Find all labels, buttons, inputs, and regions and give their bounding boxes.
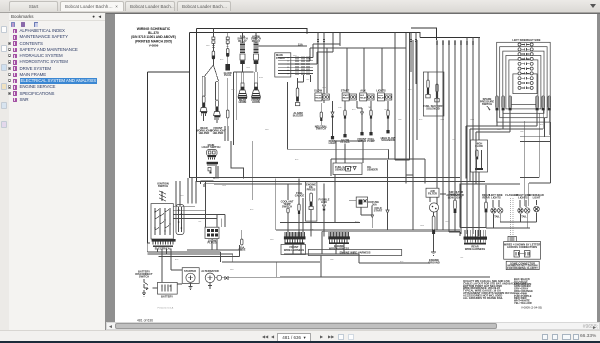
wire right routing to left	[466, 126, 476, 184]
rear horn H1	[238, 72, 247, 104]
wire right feeder bus	[420, 33, 479, 236]
svg-text:BLK: BLK	[220, 59, 224, 61]
svg-text:SOLENOID: SOLENOID	[426, 106, 440, 110]
engine harness label box	[308, 250, 401, 278]
svg-text:RED: RED	[206, 45, 210, 47]
horizontal scrollbar	[106, 322, 600, 330]
svg-text:15A: 15A	[298, 43, 303, 47]
fuse string F5	[367, 101, 375, 143]
svg-text:TAN: TAN	[368, 106, 372, 109]
horn relay K6	[251, 35, 307, 73]
page fine print	[137, 307, 174, 323]
ignition switch S2	[151, 182, 173, 240]
oil pressure switch assembly	[349, 197, 379, 228]
battery disconnect switch S3	[135, 270, 153, 289]
wire feeds above ignition	[147, 178, 205, 243]
svg-text:PRESS: PRESS	[307, 187, 316, 191]
svg-text:HORN: HORN	[239, 100, 247, 104]
svg-text:PNK: PNK	[338, 107, 342, 109]
spark arrestor muffler	[429, 190, 463, 212]
tab bar	[0, 0, 600, 13]
svg-text:YEL: YEL	[460, 257, 463, 259]
rear worklight lamp L1	[196, 76, 212, 135]
svg-text:BLK: BLK	[250, 209, 254, 211]
main light switch S1	[202, 143, 221, 178]
wire coil drains	[466, 110, 551, 206]
notes text block	[463, 279, 527, 300]
svg-text:WIRE HARNESS: WIRE HARNESS	[465, 247, 485, 251]
svg-text:SWITCH: SWITCH	[482, 102, 492, 106]
svg-text:RELAY: RELAY	[360, 96, 367, 99]
svg-text:GRN: GRN	[222, 185, 227, 187]
engine oil pressure sender box	[306, 182, 317, 237]
connector pin rows	[518, 43, 533, 89]
svg-text:V-0809: V-0809	[149, 44, 159, 48]
page	[115, 14, 597, 322]
svg-text:RED: RED	[180, 195, 184, 197]
wire light switch drop links	[201, 141, 253, 200]
svg-text:GRN: GRN	[470, 119, 475, 121]
wire V split to worklights	[205, 59, 219, 81]
engine harness connector comb CN3	[328, 232, 350, 250]
svg-text:WHT: WHT	[330, 259, 335, 261]
svg-text:TAIL: TAIL	[521, 215, 527, 219]
wire fuse block outputs	[291, 44, 340, 88]
fuse 15A label	[298, 43, 303, 47]
svg-text:WHT: WHT	[520, 131, 525, 133]
svg-text:GAUGE: GAUGE	[295, 193, 305, 197]
diode string D1	[329, 101, 337, 145]
svg-text:LIGHT: LIGHT	[329, 141, 337, 145]
converter lamp	[529, 193, 544, 218]
fuse string F6	[381, 101, 396, 142]
svg-text:TAIL: TAIL	[494, 215, 500, 219]
svg-text:SWITCH: SWITCH	[158, 184, 168, 188]
wire relay feeds from bus	[317, 33, 417, 160]
node junction dots	[213, 32, 307, 178]
svg-text:WHT: WHT	[398, 119, 403, 121]
svg-text:SENDER: SENDER	[335, 167, 346, 171]
svg-text:RED: RED	[293, 55, 297, 57]
coil right group	[536, 96, 551, 110]
air filter switch	[426, 188, 439, 202]
svg-text:LIGHTS: LIGHTS	[376, 89, 386, 93]
bookmarks panel	[9, 13, 106, 330]
wire harness links center	[333, 33, 363, 163]
svg-text:YEL: YEL	[198, 221, 201, 223]
svg-text:WIRE HARNESS: WIRE HARNESS	[329, 246, 349, 250]
svg-text:RELAY: RELAY	[316, 96, 323, 99]
front worklight lamp L2	[210, 81, 226, 135]
svg-text:ORG: ORG	[440, 119, 445, 121]
wire color code list	[514, 277, 533, 305]
svg-text:HELPER: HELPER	[213, 131, 224, 135]
svg-text:RED: RED	[230, 269, 234, 271]
lights relay K4	[376, 89, 392, 101]
svg-text:SOLENOID: SOLENOID	[381, 138, 395, 142]
svg-text:RED: RED	[265, 129, 269, 131]
right tail light assembly	[516, 193, 531, 219]
alternator low indicator	[446, 185, 464, 225]
wire id labels	[175, 45, 544, 271]
svg-text:Printed in U.S.A.: Printed in U.S.A.	[158, 307, 175, 310]
svg-text:BLK: BLK	[419, 119, 423, 121]
svg-text:ALL GROUNDS TO FRAME RAIL: ALL GROUNDS TO FRAME RAIL	[463, 296, 503, 300]
aux relay K3	[360, 89, 374, 101]
wire lamps bus	[449, 184, 537, 237]
fusible link	[318, 184, 329, 237]
svg-text:LIGHTS: LIGHTS	[518, 195, 528, 199]
front harness connector comb CN2	[281, 232, 306, 255]
instrument enclosure top	[331, 159, 425, 184]
wire left double vertical	[190, 28, 197, 181]
legend note box	[506, 261, 539, 270]
svg-text:BRN: BRN	[259, 77, 263, 79]
fuse 30A string	[239, 230, 246, 252]
fuse block FB1	[275, 53, 291, 77]
rear harness connector comb CN4	[464, 230, 488, 251]
instrument panel box	[333, 163, 378, 222]
svg-text:BUZZER: BUZZER	[293, 113, 304, 117]
cab connector block CN1	[497, 38, 551, 122]
svg-text:HELPER: HELPER	[199, 131, 210, 135]
fuse F2	[224, 49, 233, 127]
fuse string F3	[341, 101, 350, 144]
wire inner top link	[327, 48, 406, 93]
status bar	[0, 330, 600, 341]
svg-text:HORN: HORN	[252, 100, 260, 104]
svg-text:LEFT SIDE: LEFT SIDE	[512, 38, 526, 42]
ignition aux contact column	[173, 205, 225, 235]
drawing number	[521, 306, 542, 310]
spare connector note	[480, 97, 495, 110]
svg-text:GROUND: GROUND	[428, 260, 440, 264]
svg-text:SWITCH: SWITCH	[316, 127, 326, 131]
legend connectors box	[504, 242, 541, 260]
front horn H2	[252, 72, 261, 104]
document area	[106, 13, 600, 323]
svg-text:STARTER: STARTER	[184, 269, 196, 273]
svg-text:BLK: BLK	[295, 159, 299, 161]
fuel shutoff solenoid box	[423, 72, 444, 116]
svg-text:ALTERNATOR: ALTERNATOR	[201, 269, 219, 273]
left tail light assembly	[489, 193, 503, 219]
svg-text:START: START	[341, 89, 350, 93]
fuse string F4	[357, 101, 367, 143]
alternator G1	[201, 269, 280, 283]
coolant temp switch	[281, 184, 294, 237]
svg-text:RED: RED	[270, 239, 274, 241]
neutral switch string	[315, 103, 328, 131]
title block text	[131, 27, 176, 48]
svg-text:LIGHT: LIGHT	[533, 195, 541, 199]
svg-text:RIGHT SIDE: RIGHT SIDE	[526, 38, 541, 42]
svg-text:SWITCH: SWITCH	[282, 204, 292, 208]
svg-text:LIGHT SWITCH: LIGHT SWITCH	[202, 145, 221, 149]
starter M1	[182, 268, 199, 284]
svg-text:FOR DRAWING CLARITY: FOR DRAWING CLARITY	[507, 266, 538, 270]
wire lower-left buses	[147, 215, 242, 284]
cold start diode	[374, 160, 389, 230]
svg-text:GLOW: GLOW	[314, 89, 323, 93]
svg-text:BATTERY: BATTERY	[161, 295, 173, 299]
left nav strip	[0, 13, 10, 330]
svg-text:AUX: AUX	[360, 89, 366, 93]
svg-text:SWITCH: SWITCH	[139, 274, 149, 278]
wire mid bus y178	[190, 178, 521, 185]
wire center verticals	[406, 33, 417, 175]
svg-text:LIGHTS: LIGHTS	[491, 195, 501, 199]
fuse F1	[212, 51, 215, 59]
wire left border	[147, 72, 189, 243]
ground engine	[428, 250, 440, 264]
svg-text:BLU: BLU	[352, 109, 356, 111]
svg-text:30A: 30A	[372, 202, 377, 206]
high flow solenoid box	[471, 140, 488, 172]
glow plug feed connector J1	[212, 28, 229, 51]
flasher (dashed)	[505, 193, 517, 244]
svg-text:ACROSS CONNECTORS: ACROSS CONNECTORS	[507, 245, 537, 249]
svg-text:V-0809 (2-04-05): V-0809 (2-04-05)	[521, 306, 542, 310]
wire top bus	[190, 28, 481, 40]
svg-text:YEL=YELLOW: YEL=YELLOW	[514, 301, 532, 305]
svg-text:FILTER: FILTER	[428, 191, 437, 195]
ground starter	[189, 283, 193, 289]
svg-text:FUSES: FUSES	[276, 56, 285, 60]
svg-text:FLOW: FLOW	[475, 144, 483, 148]
glow plug relay K1	[314, 89, 329, 101]
svg-text:RELAY: RELAY	[343, 96, 350, 99]
glow plugs grid box	[205, 227, 219, 245]
wire horn feeds	[225, 33, 256, 145]
wire center-bottom buses	[147, 160, 490, 277]
svg-text:SENDER: SENDER	[367, 167, 378, 171]
alarm buzzer string	[293, 78, 304, 117]
svg-text:ORG: ORG	[246, 67, 251, 69]
svg-text:RED: RED	[408, 89, 412, 91]
svg-text:BLK: BLK	[175, 259, 179, 261]
starter relay K2	[341, 89, 357, 101]
fuse panel enclosure	[288, 82, 389, 159]
ignition harness comb	[152, 239, 176, 251]
oil sender long component	[432, 212, 435, 250]
svg-text:RELAY: RELAY	[378, 96, 385, 99]
svg-text:GRN: GRN	[420, 225, 425, 227]
battery B1	[144, 282, 177, 298]
fuel gauge sender	[295, 178, 305, 236]
svg-text:PUMP: PUMP	[367, 139, 375, 143]
ground battery disconnect	[142, 290, 146, 296]
svg-text:WHT: WHT	[231, 89, 236, 91]
horn relay K5	[237, 35, 247, 73]
right rear light	[482, 185, 490, 228]
ground alternator	[208, 283, 212, 289]
svg-text:START: START	[374, 208, 383, 212]
svg-text:PLUG: PLUG	[224, 73, 231, 77]
coil left group	[496, 96, 512, 110]
taskbar edge	[0, 341, 600, 343]
svg-text:YEL: YEL	[306, 79, 309, 81]
